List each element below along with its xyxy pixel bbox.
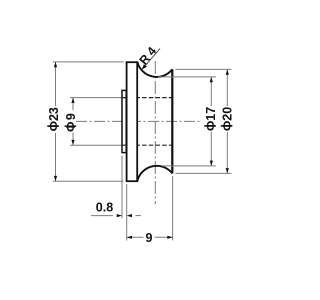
centerline vertical (groove center): [154, 61, 156, 204]
dimension 9 line with arrows: [127, 236, 172, 238]
dimension phi17 extension lines: [158, 77, 216, 166]
dimension 0.8 extension lines: [122, 156, 127, 241]
R4 leader line with arrow: [143, 49, 160, 69]
dimension phi9 extension lines: [70, 98, 122, 146]
svg-text:Φ9: Φ9: [64, 112, 78, 132]
dimension phi23 line with arrows: [55, 62, 57, 180]
svg-text:9: 9: [146, 231, 153, 245]
dimension phi20 extension lines: [175, 69, 231, 173]
hidden bore line top (phi9): [122, 97, 172, 99]
svg-text:Φ20: Φ20: [220, 107, 234, 131]
pulley flange (phi23 ear): [127, 62, 138, 181]
dimension phi20 line with arrows: [226, 70, 228, 173]
groove arc top (R4): [137, 62, 172, 77]
svg-text:Φ17: Φ17: [204, 107, 218, 131]
dimension phi23 extension lines: [53, 62, 124, 181]
dimension phi17 line with arrows: [210, 77, 212, 165]
hidden bore line bottom (phi9): [122, 144, 172, 146]
svg-text:Φ23: Φ23: [47, 107, 61, 131]
washer plate (0.8 thick): [122, 90, 126, 152]
centerline horizontal (axis): [76, 120, 202, 122]
groove arc bottom (R4): [137, 166, 172, 181]
pulley right rim edge (phi20): [171, 69, 173, 173]
svg-text:0.8: 0.8: [96, 201, 113, 215]
dimension phi9 line with arrows: [72, 98, 74, 145]
dimension 9 extension line right: [172, 176, 174, 241]
dimension 0.8 line with arrows: [91, 215, 141, 217]
